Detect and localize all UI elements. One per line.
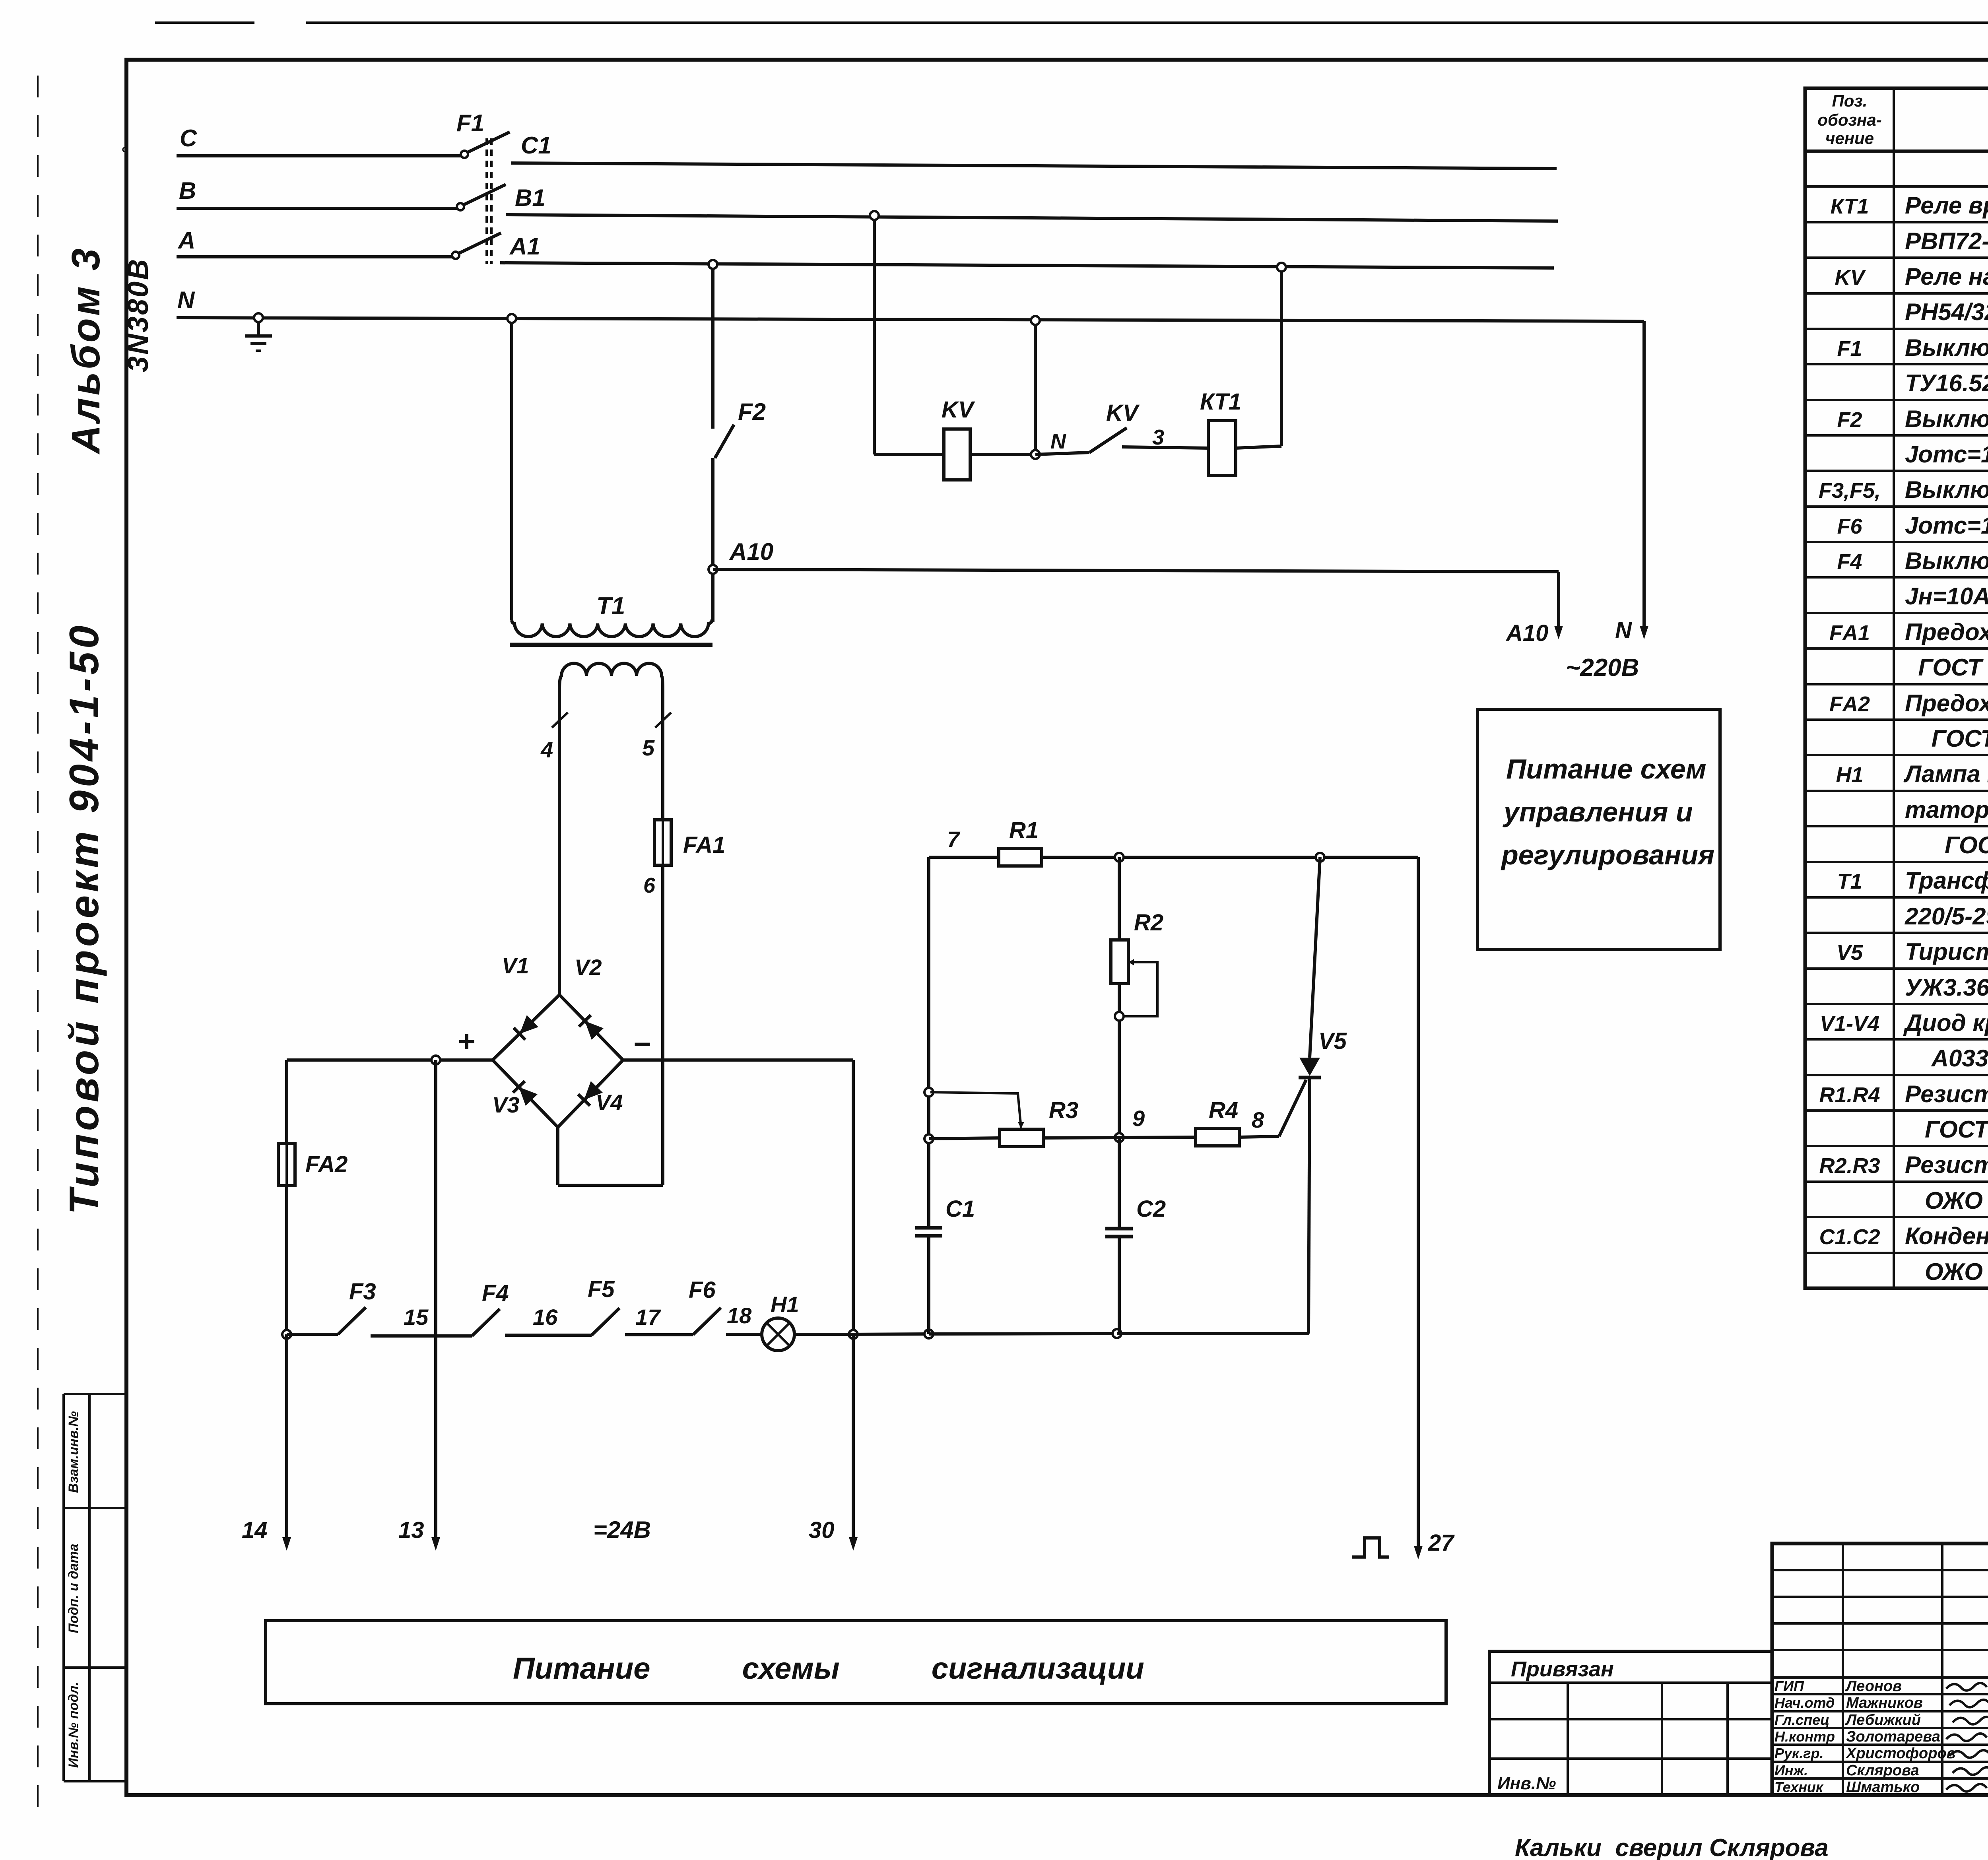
svg-text:Т1: Т1	[1837, 870, 1862, 893]
svg-text:F2: F2	[738, 398, 766, 425]
wire bridge plus to FA2	[287, 1058, 493, 1062]
wire A1 to F2	[711, 263, 714, 429]
wire F2 to T1 primary	[711, 458, 714, 622]
svg-text:Н.контр: Н.контр	[1774, 1728, 1835, 1745]
wire 15	[371, 1334, 472, 1338]
svg-text:ГОСТ 5010-75: ГОСТ 5010-75	[1905, 725, 1988, 752]
svg-text:4: 4	[540, 737, 553, 762]
wire B1 to KV coil	[873, 215, 876, 454]
secondary terminal 4	[558, 691, 561, 995]
svg-text:R3: R3	[1049, 1097, 1078, 1123]
diode bridge wires	[493, 995, 559, 1060]
svg-text:Т1: Т1	[596, 592, 625, 620]
svg-text:чение: чение	[1825, 129, 1874, 148]
svg-text:Леонов: Леонов	[1845, 1678, 1902, 1695]
svg-text:ОЖО 464.079ТУ: ОЖО 464.079ТУ	[1905, 1258, 1988, 1285]
wire A10	[713, 569, 1559, 572]
svg-text:=24В: =24В	[593, 1516, 651, 1543]
wire 16	[505, 1334, 592, 1337]
svg-text:F5: F5	[588, 1276, 615, 1302]
thyristor V5 gate wire	[1279, 1080, 1306, 1136]
breaker F3	[338, 1307, 366, 1334]
wire left branch	[927, 857, 930, 1228]
svg-text:управления и: управления и	[1503, 796, 1693, 827]
svg-text:ГОСТ 5010-75: ГОСТ 5010-75	[1905, 654, 1988, 681]
relay coil KV	[944, 429, 970, 480]
wire V5 cathode down	[1309, 1078, 1310, 1334]
resistor R1	[999, 848, 1042, 866]
svg-text:Техник: Техник	[1774, 1779, 1824, 1795]
R3 wiper	[930, 1092, 1021, 1128]
fuse FA2	[278, 1144, 295, 1186]
svg-text:Конденсатор К50-12-50В-200мкф: Конденсатор К50-12-50В-200мкф	[1905, 1223, 1988, 1249]
text box power of control circuits	[1477, 709, 1720, 949]
svg-text:Поз.: Поз.	[1832, 91, 1868, 110]
svg-text:Питание схемы сигнализации: Питание схемы сигнализации	[513, 1652, 1144, 1685]
wire node 14	[285, 1334, 288, 1538]
svg-text:Резистор МЛТ-1-2к±10%: Резистор МЛТ-1-2к±10%	[1905, 1081, 1988, 1107]
svg-text:17: 17	[635, 1305, 661, 1330]
svg-text:Нач.отд: Нач.отд	[1774, 1695, 1835, 1711]
svg-text:KV: KV	[942, 397, 975, 423]
svg-text:Выключатель АЕ 2043Ф,Jн=25А: Выключатель АЕ 2043Ф,Jн=25А	[1905, 334, 1988, 361]
svg-text:ОЖО 468.046ТУ: ОЖО 468.046ТУ	[1905, 1187, 1988, 1214]
svg-text:А1: А1	[509, 233, 540, 260]
wire H1 to node	[794, 1333, 853, 1336]
svg-text:N: N	[1615, 617, 1632, 643]
wire phase A1	[500, 263, 1554, 268]
svg-text:KV: KV	[1835, 266, 1866, 289]
wire KV coil to node N	[970, 453, 1034, 456]
wire to C2	[1118, 1138, 1121, 1229]
contact KV	[1035, 452, 1089, 454]
svg-text:В1: В1	[515, 184, 546, 211]
svg-text:Инв.№ подл.: Инв.№ подл.	[66, 1682, 81, 1768]
sheet left edge dashed	[37, 76, 39, 1813]
svg-text:N: N	[1050, 429, 1066, 453]
svg-text:5: 5	[642, 735, 655, 760]
breaker F5	[592, 1308, 619, 1335]
svg-text:8: 8	[1252, 1107, 1264, 1132]
table row lines	[1805, 185, 1988, 188]
svg-text:Предохранитель П Ц-30-5, 5А: Предохранитель П Ц-30-5, 5А	[1905, 619, 1988, 645]
svg-text:Привязан: Привязан	[1511, 1657, 1614, 1681]
svg-text:Альбом 3: Альбом 3	[64, 246, 108, 455]
svg-text:Гл.спец: Гл.спец	[1774, 1712, 1829, 1728]
svg-text:Кальки сверил Склярова: Кальки сверил Склярова	[1515, 1834, 1829, 1860]
svg-text:V5: V5	[1318, 1028, 1347, 1054]
svg-text:F3,F5,: F3,F5,	[1819, 479, 1881, 503]
diode V2	[585, 1021, 604, 1040]
secondary terminal 5	[661, 691, 664, 820]
wire to V5	[1117, 1332, 1309, 1335]
svg-text:N: N	[177, 287, 195, 313]
svg-text:ГОСТ 6940-74: ГОСТ 6940-74	[1905, 832, 1988, 858]
transformer T1 secondary winding	[559, 664, 663, 691]
svg-text:27: 27	[1428, 1530, 1455, 1556]
R2 wiper loop	[1122, 962, 1157, 1016]
wire node 8	[1239, 1136, 1279, 1137]
svg-text:°: °	[120, 144, 128, 163]
svg-text:Взам.инв.№: Взам.инв.№	[66, 1411, 81, 1493]
breaker F4	[472, 1309, 500, 1336]
svg-text:А10: А10	[729, 538, 773, 565]
wire 17	[625, 1333, 693, 1336]
svg-text:Мажников: Мажников	[1846, 1695, 1923, 1711]
svg-text:R2.R3: R2.R3	[1819, 1154, 1880, 1178]
svg-text:C1: C1	[521, 132, 551, 159]
svg-text:Христофоров: Христофоров	[1845, 1745, 1956, 1762]
wire R2 to node 9	[1118, 984, 1121, 1138]
svg-text:регулирования: регулирования	[1501, 839, 1714, 870]
svg-text:18: 18	[727, 1303, 752, 1328]
svg-text:Лебижкий: Лебижкий	[1845, 1712, 1921, 1728]
svg-text:А10: А10	[1505, 620, 1548, 646]
svg-text:F3: F3	[349, 1279, 376, 1305]
svg-text:С1.С2: С1.С2	[1819, 1225, 1880, 1249]
wire node 9 to R4	[1119, 1137, 1196, 1138]
svg-text:А: А	[177, 227, 195, 254]
sheet top edge line	[155, 21, 254, 24]
svg-text:Выключатель АЕ 2036-40У3,: Выключатель АЕ 2036-40У3,	[1905, 548, 1988, 574]
wire node 13	[434, 1060, 437, 1538]
wire phase B	[177, 207, 457, 210]
table column line 1	[1893, 88, 1895, 1288]
svg-text:KV: KV	[1106, 400, 1140, 426]
svg-text:15: 15	[404, 1305, 429, 1330]
arrow to N 220V	[1642, 321, 1646, 628]
transformer T1 primary winding	[512, 619, 712, 637]
svg-text:220/5-29 ГОСТ 16710-76: 220/5-29 ГОСТ 16710-76	[1905, 903, 1988, 930]
svg-text:КТ1: КТ1	[1200, 389, 1241, 415]
svg-text:Питание схем: Питание схем	[1506, 753, 1706, 784]
wire to R2	[1118, 857, 1121, 940]
wire bridge minus	[623, 1058, 853, 1062]
svg-text:7: 7	[947, 827, 961, 852]
svg-text:C: C	[180, 125, 198, 151]
wire FA2 branch	[285, 1060, 288, 1334]
wire to V5 anode	[1310, 857, 1320, 1058]
svg-text:Jотс=12Jн, ТУ16.522. 064-75: Jотс=12Jн, ТУ16.522. 064-75	[1905, 512, 1988, 539]
wire phase C	[177, 154, 461, 157]
svg-text:6: 6	[643, 874, 656, 897]
svg-text:Инв.№: Инв.№	[1497, 1774, 1556, 1793]
table header bottom	[1805, 149, 1988, 153]
privyazan box	[1489, 1651, 1772, 1795]
svg-text:V1: V1	[502, 953, 529, 978]
wire KT1 coil to A1	[1236, 446, 1281, 448]
wire phase C1	[511, 163, 1557, 169]
title block names grid	[1772, 1544, 1988, 1795]
svg-text:13: 13	[398, 1517, 424, 1543]
svg-text:Рук.гр.: Рук.гр.	[1774, 1745, 1824, 1761]
svg-text:РН54/320, 160-320В,ТУ16:523.50: РН54/320, 160-320В,ТУ16:523.500-77	[1905, 299, 1988, 325]
component table frame	[1805, 88, 1988, 1288]
svg-text:ГИП: ГИП	[1774, 1678, 1804, 1694]
wire N to T1 primary	[510, 318, 513, 620]
resistor R4	[1196, 1128, 1239, 1146]
svg-text:Подп. и дата: Подп. и дата	[66, 1544, 81, 1633]
pulse symbol	[1352, 1538, 1389, 1557]
resistor R3	[1000, 1129, 1043, 1147]
wire to F3	[287, 1333, 338, 1336]
wire to R3	[929, 1138, 1000, 1139]
svg-text:F2: F2	[1837, 408, 1862, 432]
svg-text:C1: C1	[945, 1196, 975, 1222]
svg-text:Диод кремниевый Д242А,: Диод кремниевый Д242А,	[1903, 1010, 1988, 1036]
left margin stamp boxes	[64, 1393, 127, 1395]
svg-text:F6: F6	[689, 1277, 716, 1303]
svg-text:ТУ16.522.064-75: ТУ16.522.064-75	[1905, 370, 1988, 396]
capacitor C2	[1105, 1227, 1133, 1231]
svg-text:РезисторСП-04-10К±20%: РезисторСП-04-10К±20%	[1905, 1151, 1988, 1178]
svg-text:V5: V5	[1837, 941, 1863, 965]
svg-text:V3: V3	[492, 1092, 520, 1117]
svg-text:−: −	[633, 1027, 650, 1061]
fuse FA1	[661, 820, 664, 865]
svg-text:Трансформатор ОСМ-0.063УУ: Трансформатор ОСМ-0.063УУ	[1905, 867, 1988, 894]
wire 18	[726, 1333, 762, 1336]
breaker F6	[693, 1308, 721, 1335]
resistor R2	[1111, 940, 1128, 984]
svg-text:30: 30	[809, 1517, 835, 1543]
svg-text:Н1: Н1	[771, 1292, 799, 1317]
relay coil KT1	[1208, 421, 1236, 476]
thyristor V5	[1299, 1058, 1320, 1076]
wire node 3	[1122, 447, 1208, 448]
svg-text:УЖ3.362.021ТУ: УЖ3.362.021ТУ	[1905, 974, 1988, 1001]
svg-text:Выключатель А2036-20У3,Jн=0,6А: Выключатель А2036-20У3,Jн=0,6А,	[1905, 476, 1988, 503]
svg-text:+: +	[457, 1025, 475, 1058]
svg-text:B: B	[179, 177, 196, 204]
svg-text:F1: F1	[456, 110, 484, 136]
svg-text:Типовой проект 904-1-50: Типовой проект 904-1-50	[61, 622, 107, 1214]
wire phase A	[177, 255, 452, 258]
svg-text:R1.R4: R1.R4	[1819, 1083, 1880, 1107]
svg-text:FA1: FA1	[683, 832, 725, 858]
svg-text:Тиристор триодный КУ2016: Тиристор триодный КУ2016	[1905, 938, 1988, 965]
svg-text:F6: F6	[1837, 515, 1862, 538]
svg-text:F1: F1	[1837, 337, 1862, 361]
svg-text:~220В: ~220В	[1566, 654, 1639, 681]
node A10	[709, 565, 717, 574]
wire node 30	[852, 1334, 855, 1538]
wire	[853, 1334, 929, 1334]
svg-text:Лампа накаливания комму-: Лампа накаливания комму-	[1903, 761, 1988, 787]
wire node 7	[929, 856, 1000, 859]
wire phase B1	[506, 215, 1558, 221]
svg-text:Выключатель А-63м, Jн=5А.: Выключатель А-63м, Jн=5А.	[1905, 406, 1988, 432]
breaker F2	[715, 425, 734, 458]
svg-text:Jн=10А, ТУ16.522. 064-75: Jн=10А, ТУ16.522. 064-75	[1905, 583, 1988, 610]
svg-text:Предохранитель ПЦ-30-2, 2А: Предохранитель ПЦ-30-2, 2А	[1905, 690, 1988, 716]
transformer T1 core	[510, 643, 712, 647]
diode V1	[520, 1015, 538, 1034]
svg-text:Золотарева: Золотарева	[1846, 1728, 1940, 1745]
svg-text:FА2: FА2	[1829, 692, 1870, 716]
svg-text:V4: V4	[596, 1090, 623, 1115]
svg-text:R2: R2	[1134, 910, 1163, 936]
svg-text:R4: R4	[1209, 1097, 1238, 1123]
svg-text:Н1: Н1	[1836, 763, 1863, 787]
svg-text:FА1: FА1	[1829, 621, 1870, 645]
capacitor C1	[915, 1226, 942, 1230]
svg-text:FA2: FA2	[305, 1151, 348, 1177]
svg-text:РВП72-3222-00УЧ ТУ16.523.472-: РВП72-3222-00УЧ ТУ16.523.472-74Е	[1905, 228, 1988, 254]
diode V4	[584, 1081, 603, 1100]
svg-text:Реле времени пневматическое: Реле времени пневматическое	[1905, 192, 1988, 219]
wire N line to node	[1034, 320, 1037, 454]
svg-text:14: 14	[242, 1517, 268, 1543]
svg-text:3N380В: 3N380В	[122, 258, 154, 372]
wire top	[1042, 856, 1418, 859]
svg-text:Реле напряжения минимальное: Реле напряжения минимальное	[1905, 263, 1988, 290]
svg-text:обозна-: обозна-	[1817, 111, 1881, 129]
svg-text:F4: F4	[1837, 550, 1862, 574]
breaker F1	[461, 151, 468, 158]
svg-text:таторная КМ24-35, 0.035А: таторная КМ24-35, 0.035А	[1905, 796, 1988, 823]
svg-text:V1-V4: V1-V4	[1820, 1012, 1879, 1036]
ground symbol	[257, 318, 260, 335]
text box power of signal circuit	[266, 1621, 1446, 1704]
wire FA1 to bridge	[661, 865, 664, 1185]
svg-text:V2: V2	[575, 955, 602, 980]
svg-text:Инж.: Инж.	[1774, 1762, 1808, 1778]
svg-text:9: 9	[1132, 1106, 1145, 1131]
svg-text:А0336.206.ТУ: А0336.206.ТУ	[1905, 1045, 1988, 1072]
diode V3	[519, 1087, 538, 1106]
svg-text:Jотс=10Jн ТУ16.522.110-74: Jотс=10Jн ТУ16.522.110-74	[1905, 441, 1988, 468]
wire node 27	[1417, 857, 1420, 1547]
svg-text:ГОСТ 7113-77Е: ГОСТ 7113-77Е	[1905, 1116, 1988, 1143]
svg-text:Склярова: Склярова	[1846, 1762, 1919, 1779]
lamp H1	[762, 1318, 794, 1351]
svg-text:C2: C2	[1136, 1196, 1166, 1222]
svg-text:R1: R1	[1009, 817, 1039, 843]
wire	[929, 1334, 1117, 1334]
svg-text:КТ1: КТ1	[1831, 194, 1869, 218]
svg-text:F4: F4	[482, 1280, 509, 1306]
svg-text:16: 16	[533, 1305, 558, 1330]
wire neutral N	[177, 318, 1644, 321]
arrow to A10 220V	[1557, 572, 1560, 628]
svg-text:Шматько: Шматько	[1846, 1779, 1920, 1796]
svg-text:3: 3	[1152, 425, 1164, 449]
